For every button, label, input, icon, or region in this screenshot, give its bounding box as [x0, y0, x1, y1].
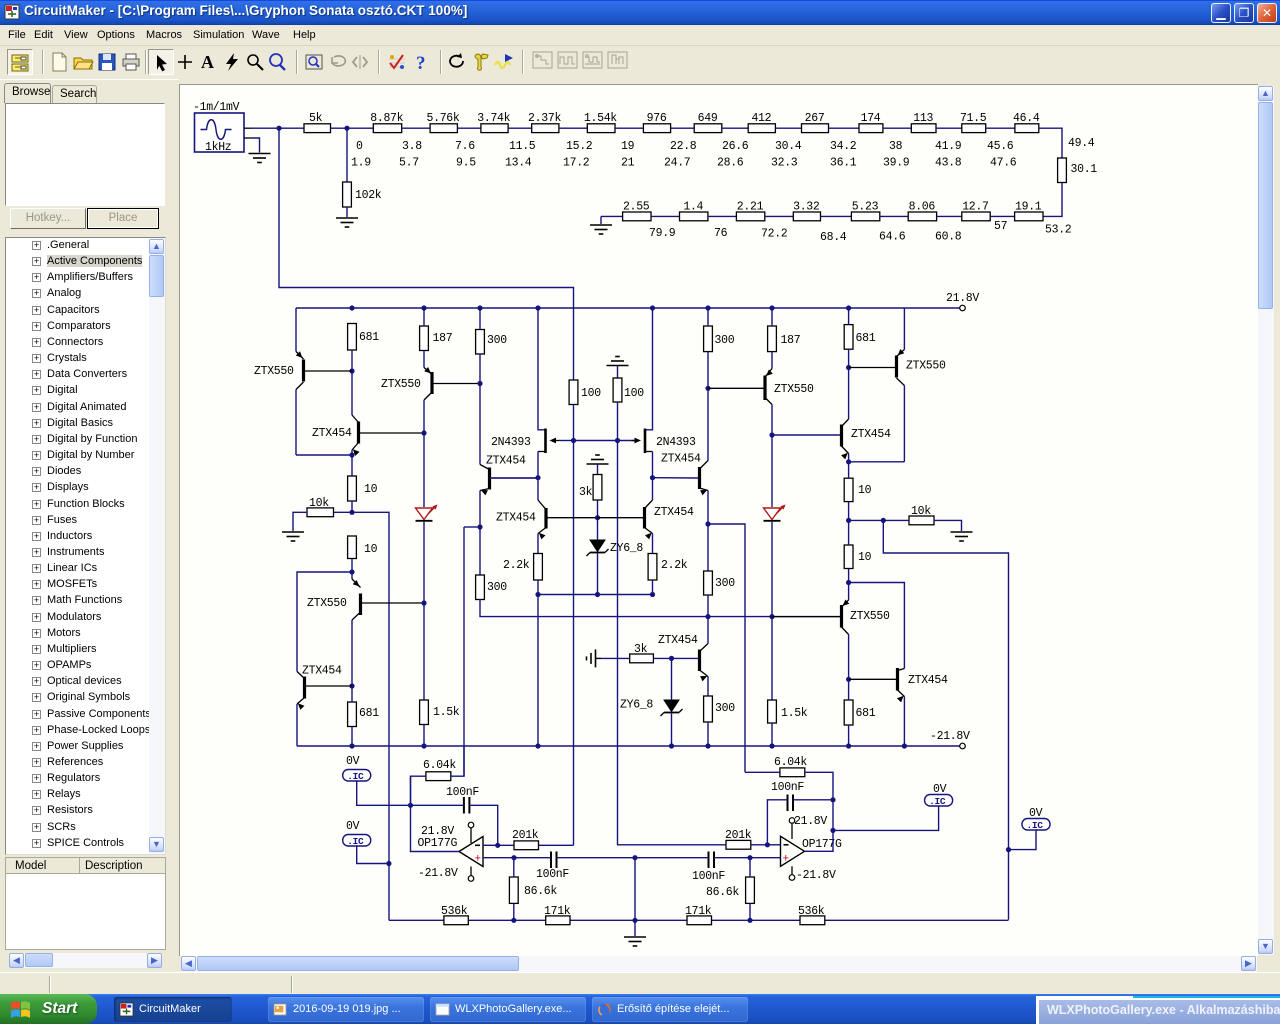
svg-text:1.5k: 1.5k: [781, 707, 808, 720]
ground center bottom: [624, 937, 646, 946]
resistor 86.6k (left): [509, 877, 557, 903]
node 86.6k sum node: [511, 918, 516, 923]
svg-text:536k: 536k: [798, 905, 825, 918]
wire rail to 681: [848, 308, 850, 325]
svg-text:OP177G: OP177G: [418, 837, 458, 850]
transistor Q10 ZTX454 (right diff NPN): [598, 500, 695, 539]
wire 5k to junction: [331, 127, 348, 129]
svg-text:12.7: 12.7: [962, 201, 988, 214]
wire 201k to inverting node: [751, 844, 768, 846]
svg-text:ZTX550: ZTX550: [774, 383, 814, 396]
node tail to rail junction: [535, 743, 540, 748]
wire node to R 5k: [279, 127, 304, 129]
svg-text:19: 19: [621, 140, 635, 153]
svg-text:.IC: .IC: [929, 796, 946, 807]
wire 6.04k left lead to node A: [411, 776, 426, 805]
wire 10R to driver node: [848, 569, 850, 583]
wire 681 leads: [351, 686, 353, 746]
svg-text:.IC: .IC: [347, 836, 364, 847]
wire tail line: [538, 594, 653, 596]
resistor 1.5k (right): [768, 700, 808, 723]
svg-text:10: 10: [858, 551, 872, 564]
node LED-R / 1.5k-R junction: [769, 614, 774, 619]
transistor Q16 ZTX454 (center NPN): [658, 634, 700, 671]
svg-text:-21.8V: -21.8V: [418, 867, 458, 880]
svg-text:15.2: 15.2: [566, 140, 593, 153]
svg-text:100nF: 100nF: [692, 870, 725, 883]
IC marker .IC 0V (right): [925, 783, 953, 807]
resistor 10 (right upper): [844, 478, 871, 501]
resistor 174 (top ladder): [859, 112, 883, 133]
resistor 649 (top ladder): [694, 112, 722, 133]
resistor 1.4 (second ladder): [680, 201, 708, 221]
wire 2.2k to tail line: [537, 580, 539, 595]
resistor 3.32 (second ladder): [793, 201, 820, 221]
node 300 center junction: [705, 614, 710, 619]
svg-text:1kHz: 1kHz: [205, 141, 231, 154]
svg-text:1.4: 1.4: [683, 201, 703, 214]
capacitor 100nF (left lower): [536, 852, 569, 882]
wire 10k right to ground: [934, 520, 962, 531]
svg-text:32.3: 32.3: [771, 157, 798, 170]
transistor Q9 ZTX454 (right cascode NPN): [661, 453, 708, 496]
node noninverting node: [511, 855, 516, 860]
wire: [671, 127, 695, 129]
ground at second ladder start: [590, 216, 612, 234]
resistor 6.04k (right): [774, 756, 807, 777]
zener D4 ZY6_8 (lower): [620, 699, 683, 717]
wire Q16 collector diag: [700, 617, 709, 652]
wire: [990, 215, 1014, 217]
wire ground to 3k: [601, 657, 630, 659]
resistor 300 (right upper): [704, 326, 735, 352]
svg-text:681: 681: [856, 707, 876, 720]
wire 201k to servo column: [539, 844, 574, 846]
svg-text:300: 300: [715, 702, 735, 715]
wire node right and down: [849, 583, 905, 669]
svg-text:300: 300: [715, 334, 735, 347]
op-amp U2 OP177G (right, output facing right): [781, 815, 843, 882]
node center sum node: [632, 918, 637, 923]
wire gate line to right JFET: [618, 440, 637, 442]
wire bias node to left servo column: [352, 512, 389, 920]
wire link to Q2 emitter node: [296, 454, 352, 456]
resistor 1.54k (top ladder): [584, 112, 617, 133]
wire Q15 emitter to rail: [903, 697, 905, 747]
transistor Q4 ZTX454 (left lower NPN): [297, 665, 352, 710]
node junction at source output: [276, 126, 281, 131]
svg-text:+: +: [783, 854, 790, 866]
JFET J1 2N4393 (left): [491, 429, 559, 454]
wire gate node down to right 201k (right DC servo): [617, 441, 619, 846]
wire to 201k: [498, 844, 514, 846]
svg-text:6.04k: 6.04k: [774, 756, 807, 769]
wire 300 to bias line corner: [480, 600, 842, 617]
resistor 30.1 (vertical): [1058, 158, 1098, 183]
svg-text:2.37k: 2.37k: [528, 112, 561, 125]
transistor Q15 ZTX454 (right lower NPN): [849, 668, 948, 702]
wire Q7 emitter down to tap node: [479, 491, 481, 528]
node rail junction: [477, 305, 482, 310]
wire cap to inverting input: [469, 805, 497, 845]
wire 86.6k top: [513, 858, 515, 877]
wire: [708, 215, 737, 217]
wire 2.2k to tail line: [652, 580, 654, 595]
svg-text:11.5: 11.5: [509, 140, 536, 153]
power pin V- (left op-amp): [468, 867, 474, 882]
svg-text:ZTX454: ZTX454: [496, 512, 536, 525]
node voltage annotations row A: [356, 140, 1014, 153]
wire: [457, 127, 481, 129]
node left bias 10k node: [349, 510, 354, 515]
svg-text:681: 681: [359, 331, 379, 344]
node right tap node: [705, 521, 710, 526]
svg-text:ZY6_8: ZY6_8: [620, 699, 653, 712]
zener D2 ZY6_8 (upper): [587, 540, 644, 556]
wire bottom supply rail -21.8V: [297, 745, 904, 747]
svg-text:8.06: 8.06: [909, 201, 936, 214]
svg-text:ZTX550: ZTX550: [254, 365, 294, 378]
wire Q12 collector up: [848, 368, 850, 420]
svg-text:649: 649: [698, 112, 718, 125]
svg-text:43.8: 43.8: [935, 157, 962, 170]
resistor 2.37k (top ladder): [528, 112, 561, 133]
wire cap leads: [514, 857, 635, 859]
wire .IC to servo column: [357, 846, 389, 864]
svg-text:0: 0: [356, 140, 363, 153]
ground above right 100R: [607, 357, 629, 379]
wire Q10 emitter to 2.2k: [652, 534, 654, 554]
svg-text:100nF: 100nF: [771, 781, 804, 794]
svg-text:6.04k: 6.04k: [423, 759, 456, 772]
svg-text:ZY6_8: ZY6_8: [610, 542, 643, 555]
resistor 86.6k (right): [706, 877, 754, 903]
wire bias node right: [849, 519, 884, 521]
wire Q12 emitter to node: [848, 454, 850, 462]
node left tap node: [477, 524, 482, 529]
svg-text:64.6: 64.6: [879, 231, 906, 244]
wire: [829, 127, 860, 129]
svg-text:39.9: 39.9: [883, 157, 910, 170]
resistor 3k (diff bias): [579, 475, 602, 501]
node center ground node: [632, 855, 637, 860]
wire 3k to base node: [597, 500, 599, 518]
node Q2 base / Q5 collector: [421, 430, 426, 435]
wire 300 to rail: [707, 722, 709, 746]
resistor 2.2k (left): [503, 554, 542, 581]
wire rail to JFET drain (right): [646, 308, 653, 430]
svg-text:34.2: 34.2: [830, 140, 857, 153]
svg-text:30.1: 30.1: [1071, 163, 1098, 176]
node Q11 collector / Q12 base: [769, 432, 774, 437]
wire inverting input (right): [767, 844, 780, 846]
resistor 171k (right): [685, 905, 712, 925]
wire: [821, 215, 852, 217]
svg-text:171k: 171k: [544, 905, 571, 918]
transistor Q5 ZTX550 (left mid PNP): [381, 367, 480, 400]
node voltage annotations second ladder: [649, 220, 1072, 244]
wire 3k to node: [653, 657, 671, 659]
IC marker .IC 0V (left lower): [343, 820, 371, 847]
svg-text:1.9: 1.9: [351, 157, 371, 170]
svg-text:174: 174: [861, 112, 881, 125]
wire: [937, 215, 962, 217]
wire op-amp output up to node B: [805, 800, 834, 852]
wire 6.04k right lead up to tap: [451, 747, 464, 777]
wire 300 to Q5 base node: [479, 354, 481, 384]
wire: [559, 127, 587, 129]
wire: [615, 127, 643, 129]
node rail junction: [846, 743, 851, 748]
wire rail to 300: [707, 308, 709, 326]
svg-text:300: 300: [715, 577, 735, 590]
svg-text:ZTX454: ZTX454: [661, 453, 701, 466]
svg-text:201k: 201k: [725, 829, 752, 842]
svg-text:1.54k: 1.54k: [584, 112, 617, 125]
resistor 10k (left bias): [307, 497, 334, 517]
node Q11 base node: [705, 386, 710, 391]
wire V1 minus pin to ground: [252, 138, 260, 153]
svg-text:187: 187: [781, 334, 801, 347]
resistor 681 (right lower): [844, 700, 876, 725]
node Q16 base / zener node: [669, 656, 674, 661]
wire top supply rail +21.8V: [296, 307, 904, 309]
wire rail to 187: [423, 308, 425, 326]
svg-text:2.21: 2.21: [737, 201, 764, 214]
resistor 267 (top ladder): [802, 112, 829, 133]
wire Q12 base line: [772, 434, 839, 436]
svg-text:976: 976: [647, 112, 667, 125]
svg-text:3.32: 3.32: [793, 201, 820, 214]
svg-text:113: 113: [913, 112, 933, 125]
resistor 201k (left): [512, 829, 539, 850]
wire node A to cap: [411, 804, 464, 806]
resistor 300 (left upper): [476, 330, 508, 355]
wire bias node to 10R: [848, 520, 850, 545]
svg-text:26.6: 26.6: [722, 140, 749, 153]
node far-right .IC tap: [1006, 847, 1011, 852]
wire 100R to gate line: [573, 405, 575, 441]
capacitor 100nF (right): [771, 781, 804, 811]
transistor Q8 ZTX454 (left diff NPN): [496, 500, 598, 539]
svg-text:72.2: 72.2: [761, 228, 788, 241]
svg-text:1.5k: 1.5k: [433, 706, 460, 719]
resistor 3k (center bottom): [630, 643, 654, 663]
svg-text:2.2k: 2.2k: [503, 559, 530, 572]
wire down to LED: [423, 433, 425, 507]
node feedback takeoff: [881, 518, 886, 523]
resistor 12.7 (second ladder): [962, 201, 990, 221]
wire tap to right servo feed: [708, 524, 745, 772]
wire 86.6k bottom (right): [749, 903, 751, 920]
node left driver node: [349, 569, 354, 574]
wire rail to Q13 emitter: [903, 308, 905, 350]
wire rail to 300: [479, 308, 481, 330]
wire: [347, 127, 373, 129]
svg-text:7.6: 7.6: [455, 140, 475, 153]
wire cap leads (right): [635, 857, 750, 859]
wire 10R to bias node: [848, 502, 850, 521]
transistor Q14 ZTX550 (right lower PNP): [772, 583, 890, 635]
node Q5 base node: [477, 381, 482, 386]
wire base node down to Q2: [351, 371, 353, 415]
svg-text:ZTX454: ZTX454: [851, 428, 891, 441]
svg-text:ZTX550: ZTX550: [906, 360, 946, 373]
resistor 10 (left upper): [348, 476, 378, 501]
svg-text:681: 681: [359, 707, 379, 720]
svg-text:10: 10: [364, 543, 378, 556]
svg-text:ZTX454: ZTX454: [908, 674, 948, 687]
resistor 412 (top ladder): [748, 112, 775, 133]
svg-text:8.87k: 8.87k: [370, 112, 403, 125]
resistor 2.21 (second ladder): [736, 201, 764, 221]
svg-text:536k: 536k: [441, 905, 468, 918]
resistor 10 (right lower): [844, 545, 871, 569]
node B (right servo summing node): [830, 797, 835, 802]
svg-text:267: 267: [805, 112, 825, 125]
wire 1.5k to rail: [423, 725, 425, 747]
transistor Q11 ZTX550 (right mid PNP): [708, 352, 814, 405]
wire gate line between nodes: [574, 440, 618, 442]
wire 30.1 down to second ladder: [1043, 183, 1062, 217]
terminal +21.8V: [960, 305, 966, 311]
svg-text:2.2k: 2.2k: [661, 559, 688, 572]
wire Q9 base line: [653, 477, 699, 479]
resistor 3.74k (top ladder): [477, 112, 510, 133]
wire tap down to 300: [707, 524, 709, 571]
ground at source: [249, 154, 271, 163]
svg-text:57: 57: [994, 220, 1007, 233]
wire zener node down: [671, 658, 673, 699]
canvas vertical scrollbar: [1258, 86, 1274, 955]
node 86.6k sum node (right): [747, 918, 752, 923]
node .IC tap (left): [386, 861, 391, 866]
wire node to Q16 base: [672, 657, 699, 659]
node right bias 10k node: [846, 518, 851, 523]
svg-text:17.2: 17.2: [563, 157, 590, 170]
wire 86.6k top (right): [749, 858, 751, 877]
node base of Q1 / 681: [349, 368, 354, 373]
svg-text:OP177G: OP177G: [802, 838, 842, 851]
wire 100R to gate line: [617, 402, 619, 441]
wire rail stub to -21.8V terminal: [904, 745, 959, 747]
svg-text:3k: 3k: [634, 643, 648, 656]
node zener tail junction: [595, 592, 600, 597]
svg-text:ZTX454: ZTX454: [302, 665, 342, 678]
wire: [722, 127, 748, 129]
svg-text:A: A: [201, 52, 214, 72]
node gate line / source feed: [571, 438, 576, 443]
wire tap down to 300: [479, 527, 481, 575]
node Q13 base / Q12 collector: [846, 365, 851, 370]
svg-text:ZTX550: ZTX550: [307, 597, 347, 610]
wire zener to rail: [671, 714, 673, 747]
wire node down to LED: [771, 435, 773, 507]
svg-text:ZTX454: ZTX454: [312, 427, 352, 440]
svg-text:100nF: 100nF: [446, 786, 479, 799]
wire JFET source down: [537, 452, 539, 478]
node rail junction: [769, 305, 774, 310]
node Q4 base node: [349, 683, 354, 688]
wire: [402, 127, 430, 129]
svg-text:412: 412: [751, 112, 771, 125]
wire node down to 1.5k: [423, 603, 425, 700]
AC voltage source V1 -1m/1mV 1kHz: [193, 101, 252, 154]
svg-text:ZTX550: ZTX550: [381, 378, 421, 391]
node noninverting node (right): [747, 855, 752, 860]
wire 6.04k to node B: [805, 772, 833, 800]
wire V1 output to node: [252, 127, 280, 129]
wire 10k left to ground: [293, 512, 307, 531]
svg-text:5.7: 5.7: [399, 157, 419, 170]
wire gate line: [559, 440, 574, 442]
capacitor 100nF (left): [446, 786, 479, 814]
wire node down to 10R: [351, 455, 353, 476]
svg-text:681: 681: [856, 332, 876, 345]
svg-text:5.23: 5.23: [852, 201, 879, 214]
svg-text:187: 187: [433, 332, 453, 345]
svg-text:102k: 102k: [355, 189, 382, 202]
svg-text:46.4: 46.4: [1013, 112, 1040, 125]
svg-text:60.8: 60.8: [935, 231, 962, 244]
wire 681 leads: [848, 679, 850, 746]
wire Q3 collector down: [351, 620, 353, 686]
svg-text:68.4: 68.4: [820, 231, 847, 244]
resistor 300 (center bottom): [704, 696, 736, 722]
svg-text:21.8V: 21.8V: [946, 292, 979, 305]
svg-text:10: 10: [858, 484, 872, 497]
svg-text:76: 76: [714, 227, 728, 240]
LED D1 (left): [416, 505, 438, 521]
wire: [986, 127, 1015, 129]
svg-text:71.5: 71.5: [960, 112, 987, 125]
wire 300 to Q11 base node: [707, 352, 709, 389]
ground below right 10k: [951, 532, 973, 541]
wire J2 source down: [652, 452, 654, 478]
wire cap right lead to node B: [793, 799, 833, 801]
wire: [880, 215, 908, 217]
wire junction down to 102k: [346, 128, 348, 182]
capacitor 100nF (right lower): [692, 852, 725, 884]
svg-text:79.9: 79.9: [649, 227, 676, 240]
node rail junction: [650, 305, 655, 310]
node rail junction: [846, 305, 851, 310]
node rail junction: [669, 743, 674, 748]
svg-text:0V: 0V: [346, 755, 360, 768]
wire Q7 base line: [490, 477, 537, 479]
svg-text:53.2: 53.2: [1045, 224, 1072, 237]
node right driver node: [846, 580, 851, 585]
svg-text:9.5: 9.5: [456, 157, 476, 170]
svg-text:28.6: 28.6: [717, 157, 744, 170]
wire tap to DC servo feed: [464, 526, 480, 528]
node A (left servo summing node): [408, 803, 413, 808]
node tail line left end: [535, 592, 540, 597]
svg-text:38: 38: [889, 140, 903, 153]
node rail junction: [349, 305, 354, 310]
svg-text:3k: 3k: [579, 486, 593, 499]
resistor 10k (right bias): [909, 505, 934, 525]
JFET J2 2N4393 (right): [632, 429, 697, 454]
resistor 300 (left lower): [476, 575, 508, 600]
resistor 201k (right): [725, 829, 752, 849]
wire zener to tail line: [597, 554, 599, 595]
svg-text:300: 300: [487, 334, 507, 347]
transistor Q2 ZTX454 (left upper NPN): [312, 415, 424, 456]
node rail junction: [769, 743, 774, 748]
svg-text:ZTX550: ZTX550: [850, 610, 890, 623]
resistor 681 (left lower): [348, 702, 380, 727]
